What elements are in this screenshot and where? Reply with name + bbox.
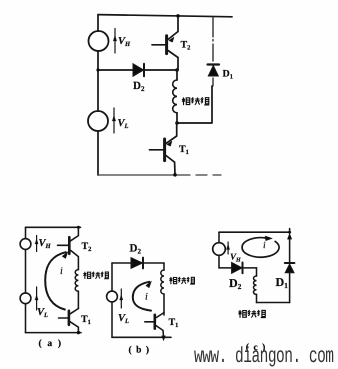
svg-text:T2: T2 [181,40,191,52]
svg-text:VL: VL [118,118,129,130]
svg-text:( b ): ( b ) [129,346,150,356]
svg-text:VH: VH [230,252,241,264]
svg-text:D2: D2 [229,276,242,291]
svg-text:T1: T1 [169,317,179,329]
svg-text:VL: VL [37,307,48,319]
svg-text:D2: D2 [133,80,145,93]
svg-text:T2: T2 [82,241,92,253]
svg-text:T1: T1 [179,144,189,156]
svg-text:D2: D2 [130,243,142,256]
svg-text:VL: VL [118,313,129,325]
svg-text:D1: D1 [223,69,233,81]
svg-text:i: i [263,241,266,251]
svg-text:VH: VH [39,238,52,250]
svg-text:VH: VH [118,36,131,48]
svg-text:D1: D1 [276,275,289,290]
svg-text:( a ): ( a ) [39,339,62,349]
svg-text:i: i [60,266,63,277]
svg-text:www. diangon. com: www. diangon. com [194,346,334,369]
svg-text:i: i [145,292,148,303]
svg-text:T1: T1 [81,314,91,326]
